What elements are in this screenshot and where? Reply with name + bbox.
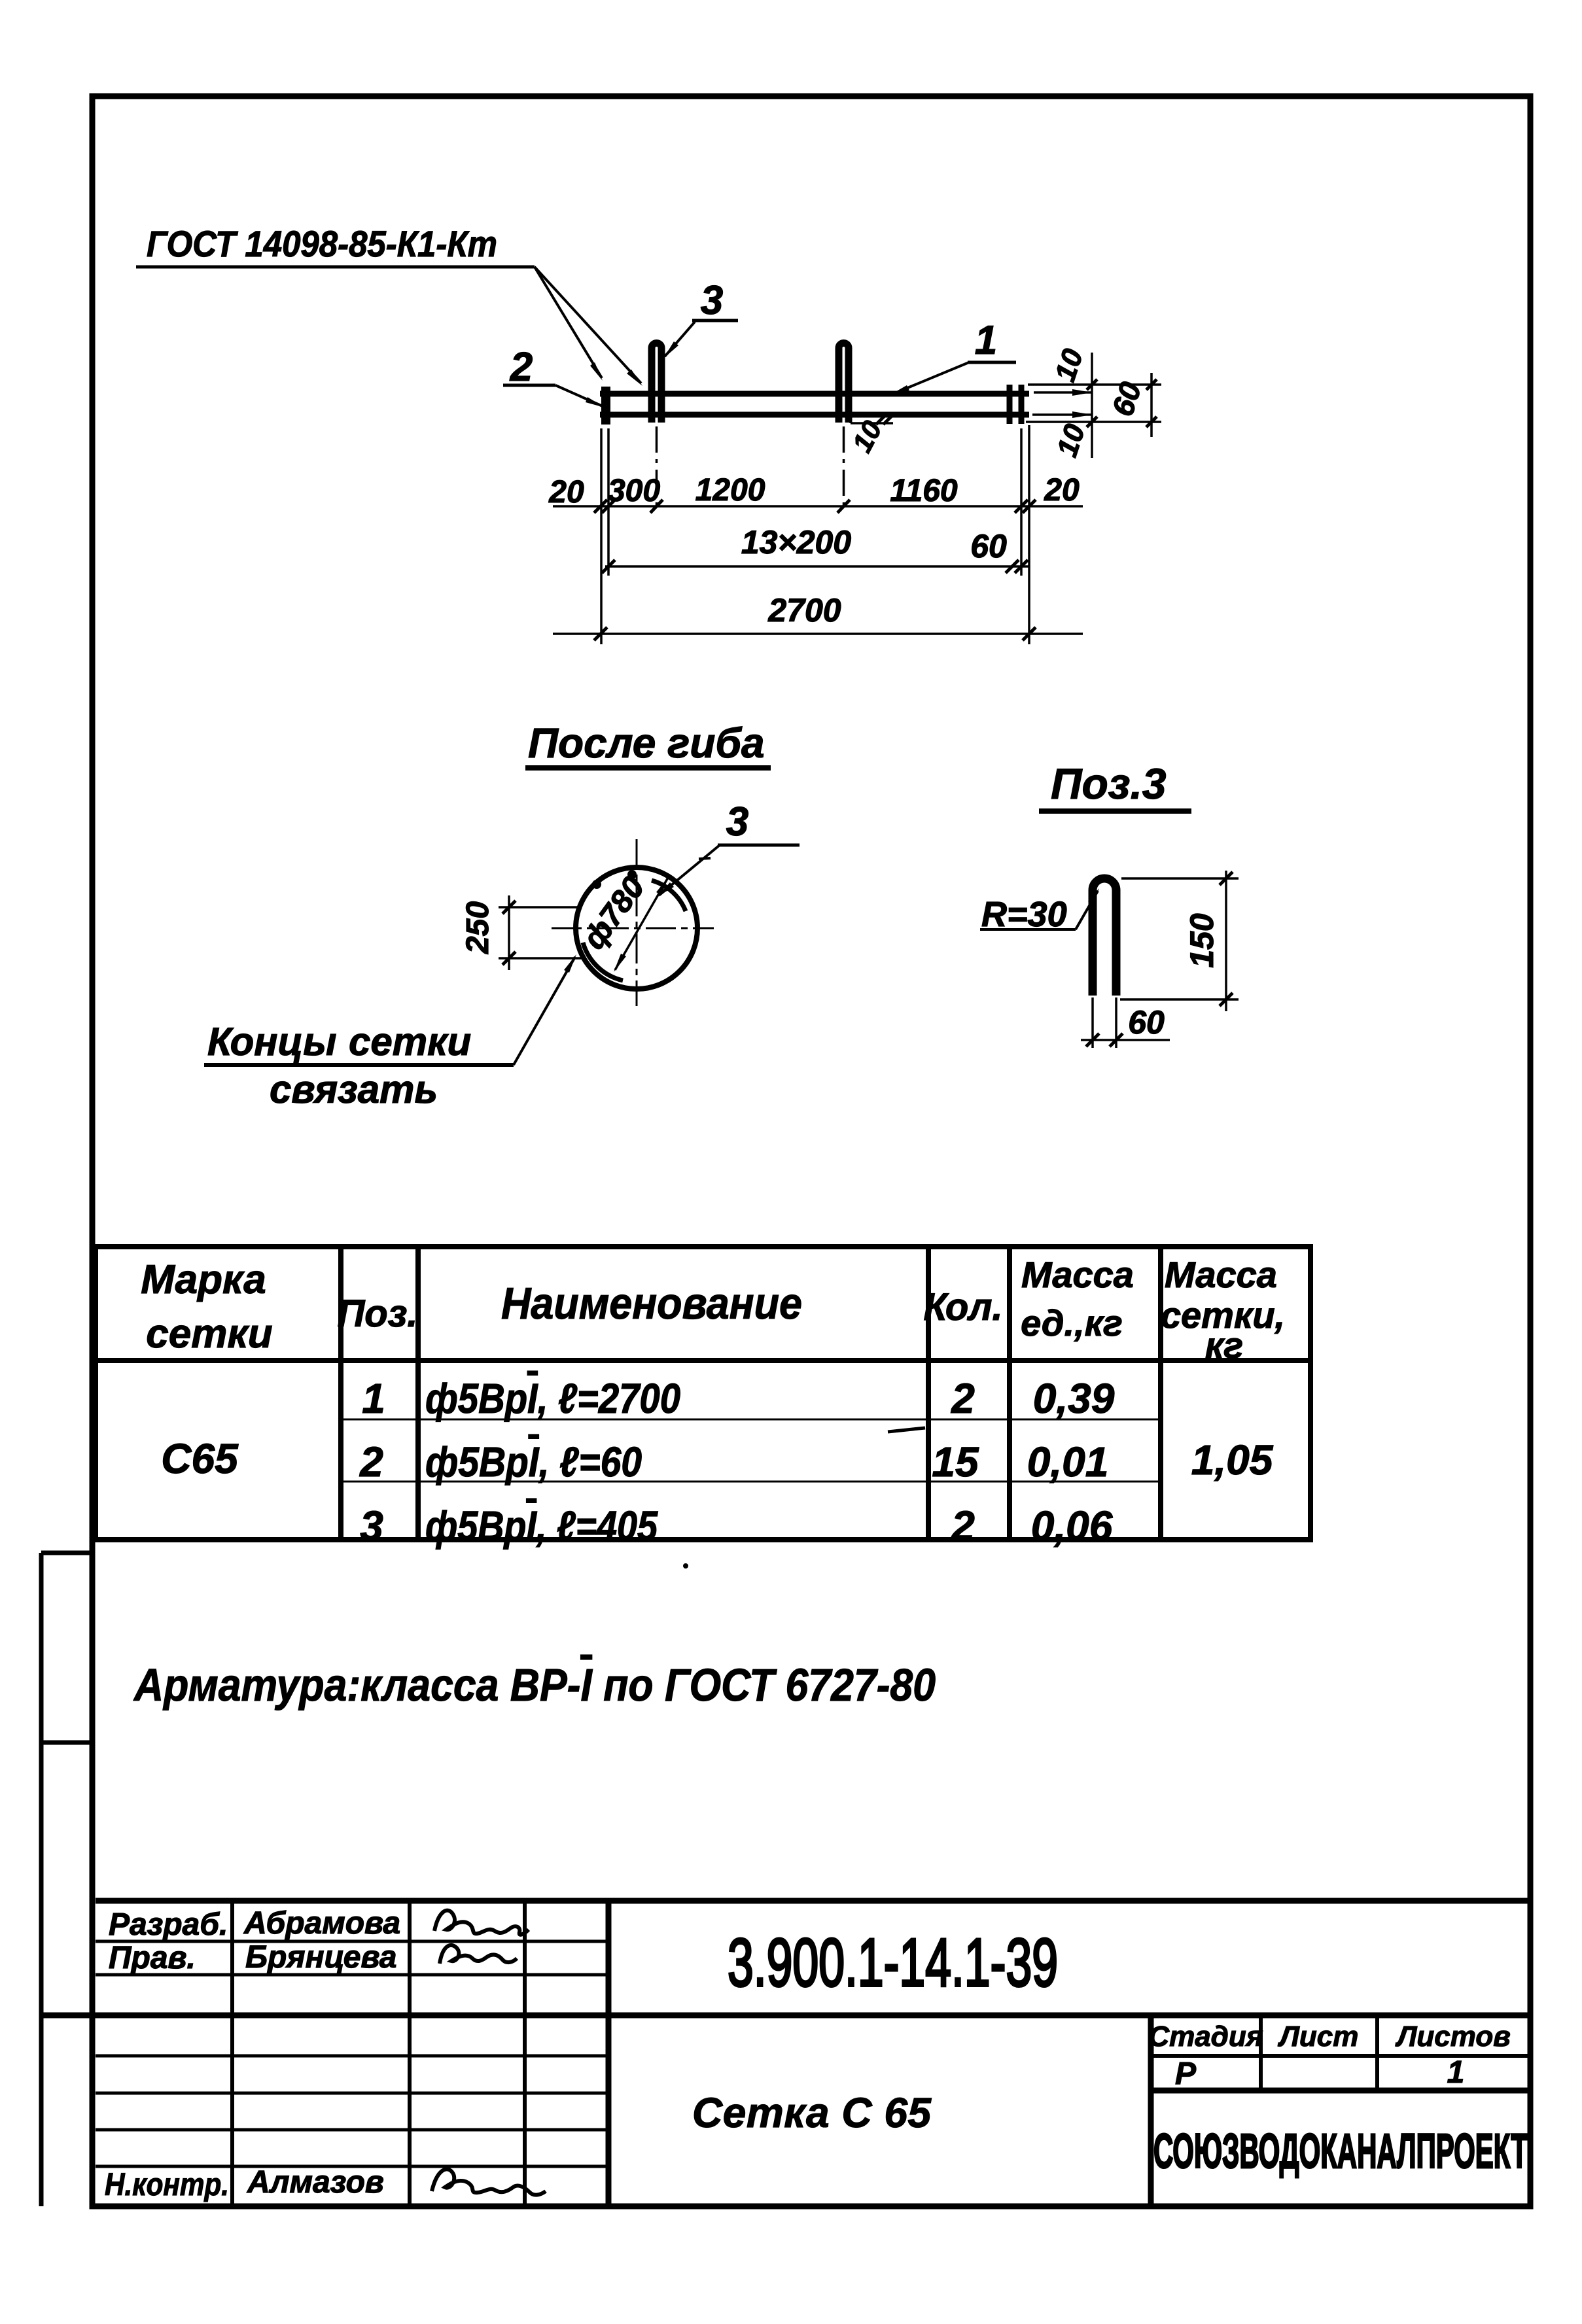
svg-text:3: 3 <box>726 799 748 844</box>
svg-text:Прав.: Прав. <box>109 1941 196 1975</box>
svg-text:ГОСТ 14098-85-К1-Кт: ГОСТ 14098-85-К1-Кт <box>147 223 497 264</box>
svg-text:3.900.1-14.1-39: 3.900.1-14.1-39 <box>728 1925 1058 2001</box>
svg-text:Разраб.: Разраб. <box>109 1907 228 1942</box>
svg-text:250: 250 <box>461 901 495 954</box>
svg-text:1: 1 <box>362 1375 385 1422</box>
svg-text:2: 2 <box>359 1438 383 1485</box>
svg-text:0,01: 0,01 <box>1027 1438 1109 1485</box>
svg-text:Брянцева: Брянцева <box>245 1940 397 1975</box>
svg-text:Поз.3: Поз.3 <box>1051 759 1167 808</box>
svg-text:Марка: Марка <box>141 1257 266 1302</box>
svg-text:13×200: 13×200 <box>741 524 851 561</box>
svg-text:ф5ВрI, ℓ=405: ф5ВрI, ℓ=405 <box>425 1502 658 1550</box>
svg-text:ф5ВрI, ℓ=60: ф5ВрI, ℓ=60 <box>425 1438 642 1485</box>
svg-text:сетки: сетки <box>146 1311 272 1357</box>
svg-text:150: 150 <box>1184 913 1220 968</box>
svg-text:0,06: 0,06 <box>1031 1502 1113 1550</box>
svg-text:кг: кг <box>1205 1325 1243 1366</box>
svg-text:Поз.: Поз. <box>338 1292 418 1335</box>
svg-text:2: 2 <box>951 1502 975 1550</box>
svg-text:300: 300 <box>608 474 660 508</box>
svg-text:Н.контр.: Н.контр. <box>105 2168 229 2202</box>
svg-text:0,39: 0,39 <box>1033 1375 1115 1422</box>
svg-text:Р: Р <box>1175 2056 1197 2091</box>
svg-text:1,05: 1,05 <box>1191 1436 1274 1483</box>
svg-text:1200: 1200 <box>695 473 765 508</box>
svg-text:2700: 2700 <box>767 592 841 629</box>
svg-text:1: 1 <box>1447 2055 1465 2090</box>
svg-text:2: 2 <box>510 345 533 390</box>
svg-text:2: 2 <box>951 1375 975 1422</box>
svg-text:3: 3 <box>701 278 723 323</box>
svg-text:15: 15 <box>932 1438 979 1485</box>
svg-text:связать: связать <box>270 1067 438 1111</box>
svg-text:ед.,кг: ед.,кг <box>1021 1302 1123 1344</box>
svg-text:Наименование: Наименование <box>501 1279 802 1328</box>
svg-text:Листов: Листов <box>1395 2020 1511 2053</box>
svg-text:1: 1 <box>975 318 997 363</box>
svg-text:Стадия: Стадия <box>1148 2020 1263 2053</box>
svg-text:Лист: Лист <box>1278 2020 1359 2053</box>
svg-text:Масса: Масса <box>1165 1254 1277 1295</box>
svg-text:ф5ВрI, ℓ=2700: ф5ВрI, ℓ=2700 <box>425 1375 680 1422</box>
svg-text:60: 60 <box>1128 1004 1165 1041</box>
svg-text:Арматура:класса ВР-I по ГОСТ 6: Арматура:класса ВР-I по ГОСТ 6727-80 <box>133 1659 936 1710</box>
svg-text:Абрамова: Абрамова <box>243 1906 400 1941</box>
svg-text:С65: С65 <box>161 1435 239 1482</box>
svg-text:Алмазов: Алмазов <box>247 2165 384 2200</box>
svg-text:Масса: Масса <box>1021 1254 1134 1295</box>
svg-text:3: 3 <box>360 1502 383 1550</box>
svg-text:1160: 1160 <box>890 474 958 508</box>
svg-text:Кол.: Кол. <box>923 1286 1002 1328</box>
svg-text:Концы: Концы <box>207 1020 337 1064</box>
svg-text:20: 20 <box>1044 473 1080 508</box>
svg-text:20: 20 <box>548 475 584 510</box>
svg-text:сетки: сетки <box>349 1020 471 1064</box>
svg-text:После гиба: После гиба <box>528 720 765 767</box>
svg-text:Сетка С 65: Сетка С 65 <box>692 2089 932 2136</box>
svg-text:СОЮЗВОДОКАНАЛПРОЕКТ: СОЮЗВОДОКАНАЛПРОЕКТ <box>1153 2124 1528 2178</box>
svg-text:60: 60 <box>970 528 1007 564</box>
